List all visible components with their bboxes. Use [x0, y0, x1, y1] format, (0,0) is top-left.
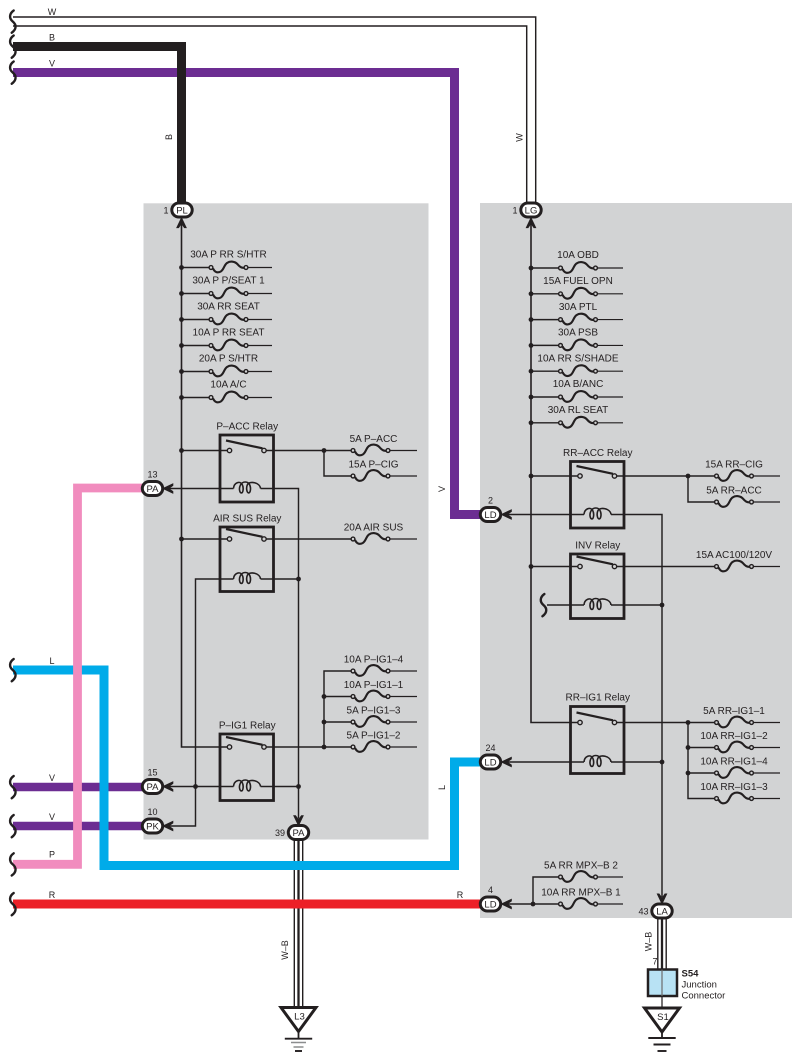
svg-text:10A A/C: 10A A/C [210, 380, 246, 391]
wire bus to P-ACC relay contact [182, 450, 228, 452]
wire branch to fuse 5A RR MPX-B 2 [533, 877, 559, 904]
svg-text:V: V [49, 812, 55, 822]
svg-text:43: 43 [638, 907, 648, 917]
relay block right (rear J/B) [480, 203, 792, 918]
wire AIR SUS relay contact output [266, 538, 351, 540]
wire RR-ACC relay coil to pin 2 LD [508, 514, 584, 516]
arrow into pin 10 PK [162, 821, 173, 832]
wire bus to fuse 15A FUEL OPN [531, 293, 559, 295]
junction P-IG1 output / fuse branch [322, 745, 327, 750]
svg-text:W: W [48, 7, 57, 17]
svg-text:10A RR MPX–B 1: 10A RR MPX–B 1 [541, 888, 621, 899]
fuse 20A AIR SUS [351, 533, 390, 544]
junction pin 4 / MPX branch [531, 902, 536, 907]
svg-text:W–B: W–B [644, 932, 654, 952]
wire break symbol W [10, 11, 15, 33]
svg-text:5A P–IG1–3: 5A P–IG1–3 [347, 706, 401, 717]
fuse 10A RR MPX–B 1 [559, 898, 598, 909]
wire branch to fuse 10A P-IG1-4 [324, 671, 351, 747]
arrow into pin 4 LD [500, 899, 511, 910]
wire RR-IG1 relay coil to node 43 [611, 761, 662, 763]
svg-text:15: 15 [147, 768, 157, 778]
connector pin 24 LD [480, 755, 500, 769]
junction connector S54 [648, 970, 677, 997]
wire W-B from pin 39 PA to ground L3 [294, 840, 302, 1008]
wire fuse 30A P P/SEAT 1 output [248, 293, 272, 295]
svg-text:10A OBD: 10A OBD [557, 250, 599, 261]
svg-text:R: R [49, 890, 56, 900]
wire fuse 5A RR-IG1-1 output [753, 722, 780, 724]
svg-text:30A P RR S/HTR: 30A P RR S/HTR [190, 250, 267, 261]
svg-text:P: P [49, 850, 55, 860]
wire B (black) to pin 1 PL [13, 47, 182, 203]
svg-text:Connector: Connector [682, 991, 726, 1002]
svg-text:2: 2 [488, 496, 493, 506]
wire AIR SUS relay coil to node 39 [261, 578, 299, 580]
fuse 5A P–IG1–3 [351, 716, 390, 727]
junction RR-IG1 coil / 43 LA line [660, 760, 665, 765]
wire fuse 5A RR-ACC output [753, 501, 780, 503]
arrow into pin 2 LD [500, 509, 511, 520]
junction bus / 10A OBD [529, 266, 534, 271]
wire fuse 10A RR-IG1-2 output [753, 747, 780, 749]
wire bus to fuse 30A PSB [531, 344, 559, 346]
svg-text:15A AC100/120V: 15A AC100/120V [696, 550, 773, 561]
arrow into pin 24 LD [500, 757, 511, 768]
junction AIR SUS coil / 39 PA line [296, 577, 301, 582]
wire fuse 30A PTL output [598, 319, 623, 321]
wire bus from LG pin 1 to RR-IG1 relay [531, 224, 578, 723]
junction P-ACC output / P-CIG branch [322, 448, 327, 453]
relay INV [571, 554, 625, 619]
svg-text:P–ACC Relay: P–ACC Relay [216, 422, 278, 433]
relay RR-IG1 [571, 707, 625, 774]
svg-text:24: 24 [485, 743, 495, 753]
wire bus to fuse 10A RR S/SHADE [531, 370, 559, 372]
wire fuse 30A PSB output [598, 344, 623, 346]
svg-text:10: 10 [147, 807, 157, 817]
fuse 5A RR–IG1–1 [715, 717, 754, 728]
wire fuse 10A P-IG1-1 output [390, 696, 417, 698]
svg-text:P–IG1 Relay: P–IG1 Relay [219, 721, 276, 732]
wire branch to fuse 5A P-IG1-3 [324, 721, 351, 723]
junction bus / INV relay [529, 564, 534, 569]
svg-text:PA: PA [293, 828, 306, 839]
wire fuse 10A A/C output [248, 397, 272, 399]
wire fuse 5A P-IG1-3 output [390, 721, 417, 723]
wire RR-IG1 relay coil to pin 24 LD [508, 761, 584, 763]
fuse 10A RR–IG1–2 [715, 742, 754, 753]
junction branch / 5A P-IG1-3 [322, 720, 327, 725]
arrow into pin 13 PA [162, 483, 173, 494]
wire bus to fuse 10A P RR SEAT [182, 345, 210, 347]
wire fuse 30A P RR S/HTR output [248, 267, 272, 269]
junction bus / P-ACC relay [179, 448, 184, 453]
wire fuse 10A RR-IG1-4 output [753, 772, 780, 774]
wire W (white) from cowl to pin 1 LG : outer line [13, 17, 536, 203]
wire V (violet) from cowl to pin 2 LD [13, 73, 481, 515]
wire fuse 5A P-IG1-2 output [390, 746, 417, 748]
wire bus to fuse 10A A/C [182, 397, 210, 399]
fuse 30A P RR S/HTR [209, 262, 248, 273]
svg-text:LA: LA [656, 906, 668, 917]
wire branch to fuse 10A RR-IG1-4 [688, 772, 715, 774]
junction bus / 30A PSB [529, 343, 534, 348]
svg-text:LG: LG [525, 205, 538, 216]
svg-text:W: W [514, 133, 524, 142]
connector pin 4 LD [480, 897, 500, 911]
arrow into pin 15 PA [162, 781, 173, 792]
relay P-IG1 [220, 734, 274, 801]
wire P-ACC relay coil to pin 13 PA [170, 488, 234, 490]
fuse 15A P–CIG [351, 470, 390, 481]
wire fuse 15A AC100/120V output [753, 566, 780, 568]
connector pin 10 PK [142, 819, 162, 833]
svg-text:39: 39 [275, 828, 285, 838]
junction INV coil / 43 LA line [660, 603, 665, 608]
junction bus / AIR SUS relay [179, 537, 184, 542]
wire break symbol V (15 PA) [10, 776, 15, 798]
fuse 30A RR SEAT [209, 314, 248, 325]
wire INV relay coil to node 43 [611, 604, 662, 606]
connector pin 2 LD [480, 508, 500, 522]
relay P-ACC [220, 435, 274, 502]
svg-text:5A RR–ACC: 5A RR–ACC [706, 486, 762, 497]
wire fuse 5A RR MPX-B 2 output [598, 876, 623, 878]
svg-text:30A PSB: 30A PSB [558, 328, 598, 339]
junction bus / 30A P RR S/HTR [179, 265, 184, 270]
svg-text:20A P S/HTR: 20A P S/HTR [199, 354, 258, 365]
svg-text:V: V [437, 486, 447, 492]
svg-text:B: B [164, 134, 174, 140]
svg-text:V: V [49, 773, 55, 783]
wire R (red) to pin 4 LD [13, 900, 481, 909]
svg-text:PK: PK [146, 821, 159, 832]
wire W-B from pin 43 LA to junction connector S54 [658, 918, 666, 970]
arrow into pin 43 LA [657, 894, 668, 905]
fuse 10A OBD [559, 262, 598, 273]
fuse 30A PSB [559, 339, 598, 350]
svg-text:5A P–IG1–2: 5A P–IG1–2 [347, 731, 401, 742]
junction RR-ACC output / RR-ACC branch [686, 474, 691, 479]
wire V (violet) to pin 10 PK [13, 822, 143, 831]
svg-text:PL: PL [176, 205, 188, 216]
wire V (violet) to pin 15 PA [13, 783, 143, 792]
svg-text:5A RR–IG1–1: 5A RR–IG1–1 [703, 706, 765, 717]
junction bus / 10A A/C [179, 395, 184, 400]
svg-text:PA: PA [147, 484, 160, 495]
junction bus / RR-ACC relay [529, 474, 534, 479]
svg-text:W–B: W–B [280, 940, 290, 960]
wire fuse 15A FUEL OPN output [598, 293, 623, 295]
wire bus to AIR SUS relay contact [182, 538, 228, 540]
wire fuse 15A RR-CIG output [753, 475, 780, 477]
svg-text:15A RR–CIG: 15A RR–CIG [705, 460, 763, 471]
wire P-IG1 relay coil to node 39 [261, 786, 299, 788]
junction bus / 10A RR S/SHADE [529, 369, 534, 374]
connector pin 39 PA [288, 826, 308, 840]
connector pin 15 PA [142, 780, 162, 794]
connector pin 1 PL [172, 203, 192, 217]
junction bus / 10A B/ANC [529, 395, 534, 400]
wire through junction connector S54 to ground S1 [661, 970, 663, 1009]
svg-text:15A P–CIG: 15A P–CIG [348, 460, 398, 471]
fuse 30A P P/SEAT 1 [209, 288, 248, 299]
wire bus to INV relay contact [531, 566, 578, 568]
wire bus to fuse 10A OBD [531, 267, 559, 269]
wire RR-IG1 relay contact output [617, 722, 715, 724]
wire branch to fuse 10A RR-IG1-2 [688, 747, 715, 749]
svg-text:30A RL SEAT: 30A RL SEAT [548, 405, 609, 416]
wire fuse 20A P S/HTR output [248, 371, 272, 373]
ground L3 [281, 1008, 316, 1052]
wire AIR SUS relay coil to pin 10 PK [170, 579, 234, 826]
wire P-ACC relay coil to pin 39 PA [261, 489, 299, 819]
wire RR-ACC relay contact output [617, 475, 715, 477]
wire bus to fuse 30A RR SEAT [182, 319, 210, 321]
wire P-ACC relay contact output [266, 450, 351, 452]
wire bus to fuse 10A B/ANC [531, 396, 559, 398]
wire bus to fuse 30A P RR S/HTR [182, 267, 210, 269]
svg-text:10A B/ANC: 10A B/ANC [553, 379, 604, 390]
svg-text:R: R [457, 890, 464, 900]
wire fuse 30A RL SEAT output [598, 422, 623, 424]
svg-text:1: 1 [512, 206, 517, 216]
wire break symbol V (10 PK) [10, 815, 15, 837]
svg-text:30A P P/SEAT 1: 30A P P/SEAT 1 [192, 276, 265, 287]
svg-text:10A P RR SEAT: 10A P RR SEAT [193, 328, 265, 339]
wire fuse 10A B/ANC output [598, 396, 623, 398]
svg-text:10A RR–IG1–3: 10A RR–IG1–3 [700, 782, 768, 793]
wire branch to fuse 5A RR-ACC [688, 476, 715, 502]
svg-text:S54: S54 [682, 969, 700, 980]
junction bus / 30A P P/SEAT 1 [179, 291, 184, 296]
svg-text:4: 4 [488, 885, 493, 895]
wire fuse 10A RR S/SHADE output [598, 370, 623, 372]
wire branch to fuse 10A P-IG1-1 [324, 696, 351, 698]
fuse 20A P S/HTR [209, 366, 248, 377]
wire pin 4 LD to fuse 10A RR MPX-B 1 [508, 903, 559, 905]
fuse 10A P RR SEAT [209, 340, 248, 351]
relay block left (passenger side J/B) [144, 203, 429, 839]
svg-text:5A RR MPX–B 2: 5A RR MPX–B 2 [544, 861, 618, 872]
fuse 15A AC100/120V [715, 561, 754, 572]
wire P-IG1 relay coil to pin 15 PA [170, 786, 234, 788]
junction bus / 15A FUEL OPN [529, 291, 534, 296]
wire break symbol at INV relay coil [541, 594, 546, 616]
svg-text:B: B [49, 33, 55, 43]
fuse 5A P–ACC [351, 445, 390, 456]
svg-text:10A RR S/SHADE: 10A RR S/SHADE [537, 353, 618, 364]
svg-text:V: V [49, 59, 55, 69]
wire branch to fuse 15A P-CIG [324, 451, 351, 477]
svg-text:RR–ACC Relay: RR–ACC Relay [563, 448, 632, 459]
wire fuse 15A P-CIG output [390, 475, 417, 477]
svg-text:AIR SUS Relay: AIR SUS Relay [213, 514, 281, 525]
connector pin 1 LG [521, 203, 541, 217]
wire fuse 10A P-IG1-4 output [390, 670, 417, 672]
svg-text:10A P–IG1–1: 10A P–IG1–1 [344, 680, 404, 691]
wire break symbol B [10, 36, 15, 58]
wire P (pink) to pin 13 PA [13, 488, 143, 864]
wire INV relay contact output [617, 566, 715, 568]
junction RR-IG1 output / fuse branch [686, 720, 691, 725]
svg-text:15A FUEL OPN: 15A FUEL OPN [543, 276, 613, 287]
svg-text:1: 1 [163, 206, 168, 216]
svg-text:30A PTL: 30A PTL [559, 302, 598, 313]
arrow into pin 39 PA [293, 815, 304, 826]
wire branch to fuse 10A RR-IG1-3 [688, 723, 715, 799]
junction bus / 30A PTL [529, 317, 534, 322]
wire W inner line [13, 26, 527, 203]
junction coil line / PK line [193, 784, 198, 789]
wire RR-ACC relay coil to pin 43 LA [611, 515, 662, 898]
junction bus / 30A RL SEAT [529, 420, 534, 425]
junction bus / 30A RR SEAT [179, 317, 184, 322]
wire fuse 10A RR-IG1-3 output [753, 798, 780, 800]
svg-text:30A RR SEAT: 30A RR SEAT [197, 302, 260, 313]
wire break symbol V [10, 62, 15, 84]
junction bus / 10A P RR SEAT [179, 343, 184, 348]
fuse 10A P–IG1–1 [351, 691, 390, 702]
wire fuse 10A RR MPX-B 1 output [598, 903, 623, 905]
svg-text:LD: LD [484, 899, 496, 910]
svg-text:7: 7 [652, 957, 657, 967]
svg-text:RR–IG1 Relay: RR–IG1 Relay [566, 693, 630, 704]
svg-text:INV Relay: INV Relay [575, 541, 620, 552]
svg-text:PA: PA [147, 782, 160, 793]
fuse 15A RR–CIG [715, 470, 754, 481]
wire bus to fuse 30A P P/SEAT 1 [182, 293, 210, 295]
arrow into pin 1 PL [176, 217, 187, 228]
svg-text:LD: LD [484, 510, 496, 521]
wire fuse 30A RR SEAT output [248, 319, 272, 321]
fuse 10A B/ANC [559, 391, 598, 402]
fuse 10A RR S/SHADE [559, 365, 598, 376]
relay AIR-SUS [220, 527, 274, 592]
connector pin 13 PA [142, 482, 162, 496]
ground S1 [645, 1008, 680, 1051]
wire bus to fuse 30A RL SEAT [531, 422, 559, 424]
wire fuse 10A P RR SEAT output [248, 345, 272, 347]
junction bus / 20A P S/HTR [179, 369, 184, 374]
wire L (blue) to pin 24 LD [13, 670, 481, 866]
svg-text:20A AIR SUS: 20A AIR SUS [344, 523, 404, 534]
fuse 10A RR–IG1–3 [715, 793, 754, 804]
connector pin 43 LA [652, 904, 672, 918]
fuse 15A FUEL OPN [559, 288, 598, 299]
svg-text:10A RR–IG1–2: 10A RR–IG1–2 [700, 731, 768, 742]
fuse 30A RL SEAT [559, 417, 598, 428]
relay RR-ACC [571, 462, 625, 529]
fuse 10A RR–IG1–4 [715, 767, 754, 778]
svg-text:10A P–IG1–4: 10A P–IG1–4 [344, 655, 404, 666]
svg-text:LD: LD [484, 757, 496, 768]
arrow into pin 1 LG [526, 217, 537, 228]
svg-text:13: 13 [147, 470, 157, 480]
wire fuse 5A P-ACC output [390, 450, 417, 452]
svg-text:10A RR–IG1–4: 10A RR–IG1–4 [700, 757, 768, 768]
wire bus to RR-ACC relay contact [531, 475, 578, 477]
fuse 5A RR MPX–B 2 [559, 871, 598, 882]
svg-text:S1: S1 [657, 1012, 669, 1023]
fuse 10A P–IG1–4 [351, 665, 390, 676]
fuse 30A PTL [559, 314, 598, 325]
junction P-IG1 coil / 39 PA line [296, 784, 301, 789]
wire fuse 20A AIR SUS output [390, 538, 417, 540]
wire fuse 10A OBD output [598, 267, 623, 269]
svg-text:L: L [49, 656, 54, 666]
wire break symbol L [10, 659, 15, 681]
fuse 5A P–IG1–2 [351, 741, 390, 752]
wire break symbol R [10, 893, 15, 915]
svg-text:5A P–ACC: 5A P–ACC [350, 434, 398, 445]
wire INV relay coil from break [547, 604, 584, 606]
svg-text:L: L [437, 785, 447, 790]
svg-text:Junction: Junction [682, 980, 717, 991]
svg-text:L3: L3 [294, 1012, 305, 1023]
wire break symbol P [10, 853, 15, 875]
junction branch / 10A RR-IG1-2 [686, 745, 691, 750]
wire bus from PL pin 1 to P-IG1 relay [182, 224, 228, 747]
fuse 5A RR–ACC [715, 496, 754, 507]
junction branch / 10A P-IG1-1 [322, 694, 327, 699]
wire bus to fuse 30A PTL [531, 319, 559, 321]
fuse 10A A/C [209, 392, 248, 403]
wire P-IG1 relay contact output [266, 746, 351, 748]
wire bus to fuse 20A P S/HTR [182, 371, 210, 373]
junction branch / 10A RR-IG1-4 [686, 771, 691, 776]
